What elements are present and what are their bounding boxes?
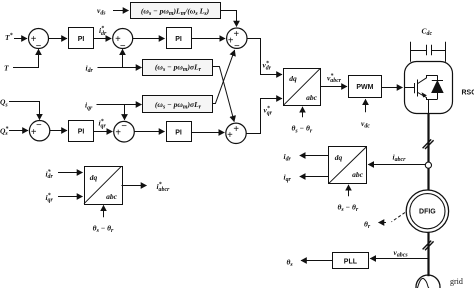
svg-text:θs − θr: θs − θr [337,202,358,213]
svg-text:DFIG: DFIG [419,209,436,216]
svg-text:T: T [4,64,9,73]
svg-text:idr: idr [284,152,292,163]
svg-text:v*dr: v*dr [263,60,272,72]
svg-text:−: − [36,120,42,131]
svg-text:θr: θr [364,219,371,230]
svg-text:dq: dq [335,153,343,162]
svg-text:θs − θr: θs − θr [291,124,312,135]
svg-text:iabcr: iabcr [393,152,407,163]
svg-text:i*abcr: i*abcr [157,181,171,193]
svg-text:PI: PI [175,36,182,43]
svg-text:θs: θs [287,257,294,268]
svg-text:idr: idr [86,63,94,74]
svg-text:dq: dq [90,173,98,182]
svg-text:PI: PI [175,130,182,137]
svg-text:iqr: iqr [85,101,93,112]
svg-text:abc: abc [106,192,118,201]
svg-text:(ωs − pωm)σLr: (ωs − pωm)σLr [155,100,202,111]
svg-text:+: + [233,124,239,135]
svg-text:vabcs: vabcs [394,248,409,259]
svg-text:+: + [227,130,233,141]
svg-text:v*qr: v*qr [264,105,273,117]
svg-text:Q*s: Q*s [0,126,8,138]
svg-text:abc: abc [306,93,318,102]
svg-text:vds: vds [97,6,106,17]
svg-text:−: − [120,41,126,52]
svg-text:abc: abc [352,170,364,179]
svg-text:PLL: PLL [344,258,358,265]
svg-text:i*qr: i*qr [46,192,54,204]
svg-text:vdc: vdc [361,119,370,130]
svg-text:−: − [234,41,240,52]
svg-text:grid: grid [450,277,463,286]
svg-text:i*qr: i*qr [99,118,107,130]
svg-text:+: + [115,128,121,139]
svg-text:PWM: PWM [356,84,373,91]
svg-text:i*dr: i*dr [99,25,107,37]
svg-text:dq: dq [289,74,297,83]
svg-text:i*dr: i*dr [46,169,54,181]
svg-text:Cdc: Cdc [422,27,433,38]
svg-text:−: − [35,41,41,52]
svg-text:−: − [121,121,127,132]
svg-text:+: + [31,127,37,138]
svg-text:v*abcr: v*abcr [327,73,342,85]
svg-text:θs − θr: θs − θr [93,223,114,234]
svg-text:T*: T* [5,32,13,42]
svg-text:+: + [233,29,239,40]
svg-text:Qs: Qs [0,98,8,109]
svg-text:RSC: RSC [462,90,474,97]
svg-text:PI: PI [78,36,85,43]
svg-text:(ωs − pωm)Lm/(ωs Ls): (ωs − pωm)Lm/(ωs Ls) [141,6,210,17]
svg-text:PI: PI [78,129,85,136]
svg-text:iqr: iqr [284,172,292,183]
